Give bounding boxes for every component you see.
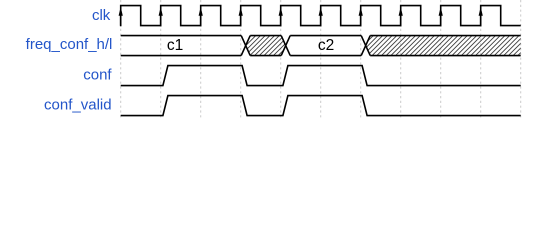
svg-text:c1: c1 [167,37,183,54]
svg-text:conf_valid: conf_valid [44,96,112,113]
svg-text:conf: conf [83,66,112,83]
svg-text:c2: c2 [318,37,334,54]
svg-text:freq_conf_h/l: freq_conf_h/l [26,36,113,53]
svg-text:clk: clk [92,7,111,24]
